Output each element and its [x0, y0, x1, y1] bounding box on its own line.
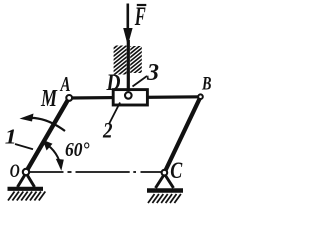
svg-text:B: B: [201, 74, 211, 95]
svg-text:M: M: [40, 86, 58, 112]
svg-text:2: 2: [102, 118, 112, 143]
svg-text:D: D: [106, 70, 121, 95]
svg-text:F: F: [134, 2, 146, 31]
svg-text:A: A: [59, 72, 70, 96]
svg-text:60°: 60°: [65, 139, 90, 161]
svg-text:C: C: [170, 158, 183, 183]
svg-text:1: 1: [5, 125, 17, 149]
svg-text:3: 3: [146, 60, 159, 86]
svg-text:O: O: [10, 161, 20, 182]
